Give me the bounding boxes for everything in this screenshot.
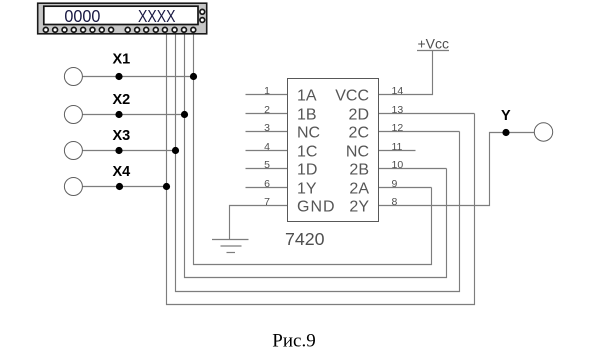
svg-text:NC: NC: [297, 125, 320, 142]
svg-text:2D: 2D: [349, 107, 369, 124]
svg-text:1A: 1A: [297, 88, 317, 105]
svg-text:Y: Y: [501, 108, 511, 124]
svg-text:NC: NC: [346, 144, 369, 161]
svg-text:XXXX: XXXX: [138, 6, 176, 26]
svg-text:1D: 1D: [297, 162, 317, 179]
svg-text:0000: 0000: [64, 6, 100, 26]
svg-text:3: 3: [264, 122, 270, 134]
svg-text:8: 8: [392, 196, 398, 208]
svg-text:X4: X4: [113, 164, 131, 180]
svg-text:2A: 2A: [349, 181, 369, 198]
svg-text:X3: X3: [113, 128, 131, 144]
svg-text:X2: X2: [113, 92, 131, 108]
svg-text:13: 13: [392, 104, 404, 116]
svg-text:+Vcc: +Vcc: [418, 36, 450, 52]
svg-text:2B: 2B: [349, 162, 369, 179]
svg-text:Рис.9: Рис.9: [272, 331, 315, 351]
svg-text:7420: 7420: [285, 229, 325, 249]
svg-text:1Y: 1Y: [297, 181, 317, 198]
svg-text:GND: GND: [297, 199, 336, 216]
svg-text:2: 2: [264, 104, 270, 116]
svg-text:2Y: 2Y: [349, 199, 369, 216]
svg-text:4: 4: [264, 141, 270, 153]
svg-text:2C: 2C: [349, 125, 369, 142]
svg-text:VCC: VCC: [335, 88, 369, 105]
svg-text:12: 12: [392, 122, 404, 134]
svg-text:1C: 1C: [297, 144, 317, 161]
svg-text:6: 6: [264, 178, 270, 190]
svg-text:11: 11: [392, 141, 403, 153]
svg-text:7: 7: [264, 196, 270, 208]
svg-text:9: 9: [392, 178, 398, 190]
svg-text:X1: X1: [113, 52, 131, 68]
svg-text:5: 5: [264, 159, 270, 171]
svg-text:1B: 1B: [297, 107, 317, 124]
svg-text:1: 1: [264, 85, 270, 97]
svg-text:14: 14: [392, 85, 404, 97]
svg-text:10: 10: [392, 159, 404, 171]
